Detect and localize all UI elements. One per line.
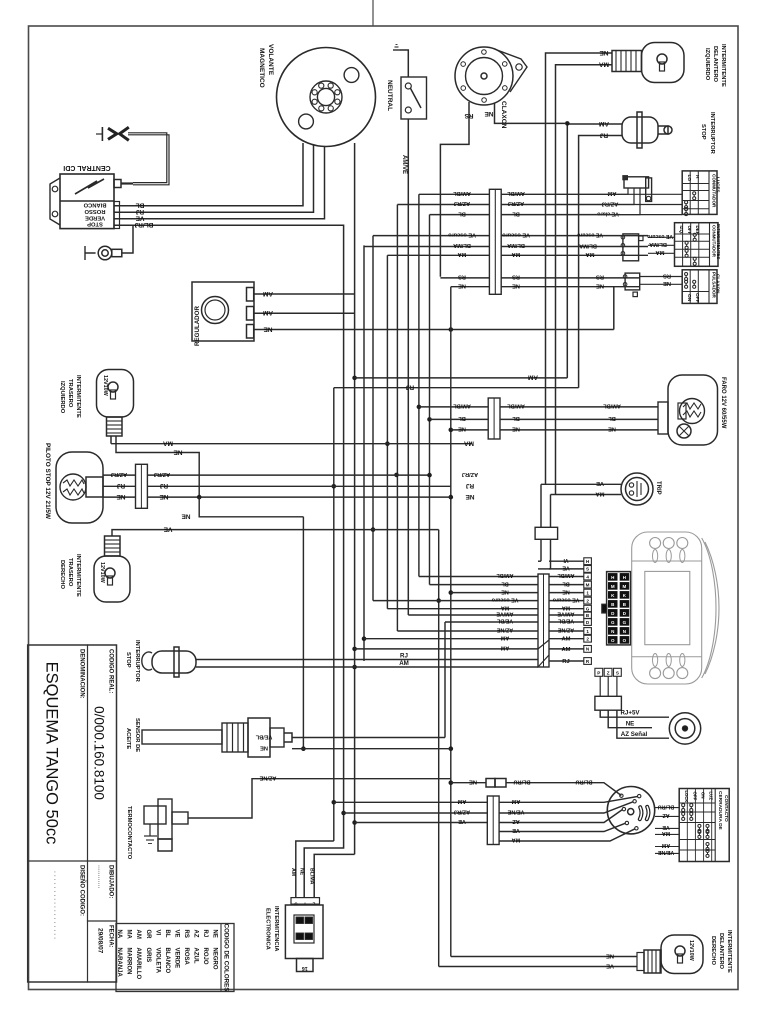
svg-text:AM/BL: AM/BL (507, 190, 525, 196)
speedo bottom connector (595, 668, 621, 676)
harness verticals (302, 517, 304, 749)
wire BL/RJ kill from CDI down to ignition (114, 225, 344, 897)
svg-text:BL/MA: BL/MA (507, 242, 525, 248)
wire AM/BL band A (419, 193, 490, 195)
svg-text:MA: MA (655, 249, 665, 255)
svg-text:1: 1 (586, 629, 589, 634)
neutral switch (401, 77, 427, 119)
svg-text:VIOLETA: VIOLETA (154, 948, 160, 974)
wire AM/VE speedo row (408, 614, 538, 616)
wire BL speedo row (430, 584, 539, 586)
svg-text:NE: NE (458, 426, 466, 432)
svg-text:CONTACTO: CONTACTO (723, 795, 729, 822)
svg-text:AM: AM (135, 930, 141, 939)
wire MA trip row (551, 494, 622, 496)
svg-text:AM: AM (561, 647, 570, 653)
wire RJ piloto (103, 485, 136, 487)
svg-text:NE: NE (512, 282, 520, 288)
svg-text:MA: MA (512, 837, 521, 843)
wire AZ/NE speedo row (397, 630, 538, 632)
wire VI speedo row (538, 560, 541, 562)
wire NE piloto (103, 496, 136, 498)
intermitencia connector top (291, 898, 320, 905)
color code table (116, 924, 234, 992)
label INTERMITENCIA ELECTRONICA (265, 906, 280, 952)
wire CDI HT to spark plug (121, 182, 133, 184)
svg-text:LUZ: LUZ (709, 792, 714, 801)
svg-text:LOCK: LOCK (684, 791, 689, 803)
front right lamp socket (637, 950, 661, 973)
svg-text:4: 4 (586, 574, 589, 579)
svg-text:AM: AM (500, 634, 509, 640)
svg-text:MARRON: MARRON (126, 948, 132, 975)
wire AZ senal (617, 710, 669, 738)
wire RJ stop switch down (579, 136, 622, 388)
svg-text:AM/BL: AM/BL (507, 403, 525, 409)
svg-text:RJ: RJ (599, 131, 608, 138)
faro lamp (668, 375, 718, 445)
svg-text:AZ/RJ: AZ/RJ (508, 200, 524, 206)
svg-text:AM: AM (661, 842, 670, 848)
claxon horn (455, 47, 527, 105)
svg-text:NE: NE (458, 282, 466, 288)
wire NE from claxon to stop row (495, 103, 566, 123)
label INTERRUPTOR STOP mid (125, 640, 140, 683)
ignition junction bar (487, 796, 499, 845)
junction dots harness (332, 484, 337, 489)
label VOLANTE MAGNETICO (258, 44, 274, 88)
svg-text:BL: BL (458, 210, 466, 216)
svg-text:S: S (586, 567, 589, 572)
wire BL/MA band A (364, 246, 489, 248)
svg-text:MA: MA (512, 251, 521, 257)
svg-text:AM/VE: AM/VE (557, 611, 574, 617)
wire AZ/RJ piloto (103, 474, 136, 476)
svg-text:TRASERO: TRASERO (67, 379, 73, 408)
svg-text:AZ: AZ (512, 818, 520, 824)
svg-text:FECHA:: FECHA: (108, 925, 114, 948)
svg-text:NE: NE (512, 426, 520, 432)
svg-text:VE: VE (596, 480, 604, 486)
wire RS band A (440, 277, 489, 279)
svg-text:BL: BL (458, 415, 466, 421)
trip fuse verticals (540, 484, 542, 527)
svg-text:NEGRO: NEGRO (212, 948, 218, 970)
piloto junction bar (136, 464, 148, 508)
regulador (192, 282, 254, 341)
svg-text:12V10W: 12V10W (99, 562, 105, 584)
svg-text:CERRADURA DE: CERRADURA DE (717, 791, 723, 831)
svg-text:RJ+5V: RJ+5V (620, 710, 640, 717)
svg-text:VE/NE: VE/NE (658, 849, 675, 855)
svg-text:PULSADOR: PULSADOR (711, 272, 716, 298)
svg-text:VE/BL: VE/BL (557, 618, 574, 624)
wire AZ/NE termocontacto (188, 779, 451, 818)
label INTERMITENTE TRASERO IZQUIERDO (59, 375, 81, 418)
svg-text:ROJO: ROJO (202, 948, 208, 965)
svg-text:AM/VE: AM/VE (401, 155, 407, 174)
svg-text:NE: NE (212, 930, 218, 938)
svg-text:2: 2 (586, 598, 589, 603)
intermitente delantero izquierdo lamp 12V10W (642, 43, 685, 83)
horn button unit (623, 273, 639, 297)
svg-text:IZQUIERDO: IZQUIERDO (704, 48, 710, 81)
wire MA trasero izq (111, 443, 472, 445)
svg-text:2: 2 (586, 637, 589, 642)
svg-text:VE oscuro: VE oscuro (448, 231, 476, 237)
wire RJ rear stop (196, 659, 538, 661)
svg-text:VE: VE (662, 824, 670, 830)
svg-text:VE claro: VE claro (597, 210, 619, 216)
svg-text:AM: AM (263, 309, 273, 316)
wire AM/BL speedo row (419, 576, 538, 578)
ground above neutral (393, 45, 408, 78)
svg-text:INTERRUPTOR: INTERRUPTOR (709, 112, 715, 155)
wire RJ row 387.7 (334, 387, 579, 389)
svg-text:CLAXON: CLAXON (500, 101, 507, 129)
svg-text:INTERMITENTE: INTERMITENTE (720, 44, 726, 87)
svg-text:DERECHO: DERECHO (59, 560, 65, 589)
svg-text:BL/MA: BL/MA (309, 868, 315, 885)
svg-text:S: S (616, 671, 619, 676)
wire ring terminal to CDI stop row (122, 225, 133, 253)
svg-text:M: M (611, 584, 615, 589)
speedo housing (632, 532, 719, 684)
volante magnetico flywheel (277, 48, 376, 147)
intermitente trasero derecho lamp (94, 536, 130, 602)
svg-text:O: O (623, 638, 627, 643)
wire volante AM main harness column (354, 143, 356, 854)
svg-text:IZQUIERDO: IZQUIERDO (59, 381, 65, 414)
svg-text:AM: AM (457, 798, 466, 804)
svg-text:NE: NE (260, 745, 268, 751)
svg-text:BL/RJ: BL/RJ (134, 221, 153, 228)
svg-text:OFF: OFF (694, 293, 700, 303)
svg-text:VE/BL: VE/BL (496, 618, 513, 624)
svg-text:ROSSO: ROSSO (84, 208, 105, 214)
cerradura de contacto table (679, 789, 729, 862)
junction bar A (489, 189, 501, 294)
wire AM stop switch to dot then down (567, 123, 622, 125)
svg-text:. . . . . . . . . . . . . . .: . . . . . . . . . . . . . . . . . . (53, 871, 60, 939)
svg-text:INTERMITENTE: INTERMITENTE (726, 930, 732, 973)
wire AM speedo row (364, 638, 538, 640)
svg-text:NE: NE (181, 513, 191, 520)
svg-text:ROSA: ROSA (183, 948, 189, 966)
svg-text:NE: NE (159, 493, 169, 500)
termocontacto (144, 799, 188, 851)
bend col 333.8 to intermitencia AM (296, 841, 334, 898)
svg-text:ESQUEMA TANGO 50cc: ESQUEMA TANGO 50cc (43, 662, 61, 845)
svg-text:CODIGO DE COLORES: CODIGO DE COLORES (223, 924, 230, 992)
wire VE front right indicator (439, 966, 637, 968)
svg-text:BL: BL (136, 202, 145, 209)
wire NE to fuse (451, 782, 486, 784)
svg-text:Z: Z (607, 671, 610, 676)
harness col 354 bend to intermitencia BL/MA (314, 854, 354, 897)
svg-text:VE oscuro: VE oscuro (577, 231, 603, 237)
svg-text:CODIGO REAL:: CODIGO REAL: (108, 649, 114, 693)
svg-text:MA: MA (163, 440, 173, 447)
svg-text:M: M (623, 584, 627, 589)
svg-text:CENTRAL CDI: CENTRAL CDI (63, 164, 110, 171)
svg-text:NARANJA: NARANJA (116, 948, 122, 978)
svg-text:VOLANTE: VOLANTE (267, 44, 274, 76)
svg-text:STOP: STOP (700, 124, 706, 140)
wire AM row 377.9 (355, 377, 568, 379)
wire AM rear stop (196, 666, 538, 668)
wire VE from CDI to volante (114, 147, 325, 219)
wire regulador AM2 (254, 312, 355, 314)
NE riser to pulsador claxon (613, 287, 615, 330)
svg-text:NE: NE (562, 588, 570, 594)
sensor de aceite (142, 718, 292, 757)
svg-text:CONMUTADOR: CONMUTADOR (712, 225, 717, 258)
svg-text:AMARILLO: AMARILLO (135, 948, 141, 980)
wire RJ from CDI to volante (114, 145, 314, 213)
svg-text:MA: MA (562, 604, 570, 610)
svg-text:M: M (586, 582, 590, 587)
svg-text:LO: LO (686, 175, 692, 182)
svg-text:CONMUTADOR: CONMUTADOR (711, 174, 716, 208)
svg-text:AM: AM (599, 120, 609, 127)
svg-text:NE: NE (465, 493, 475, 500)
svg-text:VE: VE (512, 827, 520, 833)
svg-text:G: G (586, 607, 590, 612)
wires to conmutador intermitentes (648, 236, 674, 238)
wire MA front-left indicator down to trip MA row (556, 65, 613, 495)
svg-text:H: H (694, 175, 700, 179)
svg-text:16: 16 (302, 965, 308, 971)
wheel sensor (669, 713, 700, 744)
wire regulador AM1 (254, 293, 355, 295)
svg-text:AM/BL: AM/BL (603, 403, 621, 409)
wire NE piloto down to sensor row (199, 497, 303, 517)
svg-text:NE: NE (626, 721, 635, 728)
svg-text:VI: VI (563, 557, 569, 563)
svg-text:INTERMITENTES: INTERMITENTES (716, 224, 721, 259)
svg-text:BL: BL (562, 580, 570, 586)
svg-text:NE: NE (484, 110, 494, 117)
wire NE front right indicator (451, 956, 637, 958)
svg-text:VE oscuro: VE oscuro (647, 233, 673, 239)
svg-text:MA: MA (464, 440, 474, 447)
interruptor stop front brake switch (622, 112, 672, 148)
svg-text:MA: MA (599, 61, 609, 68)
svg-text:G: G (611, 620, 615, 625)
wire AM speedo row (355, 648, 538, 650)
svg-text:BL: BL (512, 415, 520, 421)
svg-text:RS: RS (596, 274, 604, 280)
pulsador claxon table (682, 270, 720, 304)
wire NE front-left indicator down to trip VE row (546, 53, 613, 484)
wire BL band A (430, 214, 490, 216)
svg-text:RJ: RJ (116, 482, 125, 489)
svg-text:DELANTERO: DELANTERO (712, 46, 718, 83)
svg-text:RJ: RJ (562, 659, 569, 665)
wire VE speedo row (538, 568, 551, 570)
svg-text:RJ: RJ (159, 482, 168, 489)
svg-text:AZ/NE: AZ/NE (497, 627, 514, 633)
svg-text:VE oscuro: VE oscuro (552, 596, 579, 602)
svg-text:NE: NE (606, 952, 614, 958)
wire VE oscuro band A (373, 235, 489, 237)
svg-text:GRIS: GRIS (145, 948, 151, 963)
svg-text:DERECHO: DERECHO (710, 936, 716, 965)
svg-text:NA: NA (116, 930, 122, 939)
intermitente delantero derecho lamp (661, 935, 703, 974)
svg-text:1: 1 (586, 590, 589, 595)
faro connector (658, 402, 668, 434)
faro junction bar (488, 398, 500, 439)
svg-text:DENOMINACION:: DENOMINACION: (79, 649, 85, 699)
svg-text:NE: NE (596, 283, 604, 289)
svg-text:NE: NE (608, 426, 616, 432)
svg-text:VE: VE (458, 818, 466, 824)
svg-text:AZ/NE: AZ/NE (259, 775, 276, 781)
svg-text:AZ/RJ: AZ/RJ (602, 200, 619, 206)
svg-text:AZ/RJ: AZ/RJ (454, 809, 470, 815)
wire MA speedo row (387, 608, 538, 610)
svg-text:SENSOR DE: SENSOR DE (134, 718, 140, 752)
svg-text:AZ/NE: AZ/NE (558, 627, 575, 633)
wire VE/BL speedo row (445, 621, 538, 623)
svg-text:RJ: RJ (465, 482, 474, 489)
svg-text:AZ: AZ (192, 930, 198, 938)
label INTERMITENTE TRASERO DERECHO (59, 554, 81, 597)
svg-text:AM: AM (511, 798, 520, 804)
intermitencia electronica box (285, 905, 323, 959)
svg-text:AZ/RJ: AZ/RJ (154, 471, 170, 477)
svg-text:BL/MA: BL/MA (649, 241, 667, 247)
svg-text:G: G (623, 620, 627, 625)
svg-text:PILOTO STOP 12V 21/5W: PILOTO STOP 12V 21/5W (44, 443, 51, 520)
svg-text:RJ: RJ (202, 930, 208, 938)
svg-text:BLANCO: BLANCO (164, 948, 170, 974)
svg-text:BL/MA: BL/MA (579, 242, 597, 248)
wires to conmutador luces (620, 193, 682, 195)
svg-text:MA: MA (585, 251, 595, 257)
CDI internal labels (83, 201, 106, 226)
svg-text:BL/RU: BL/RU (575, 779, 592, 785)
wires speedo bottom connector to bar (599, 676, 601, 696)
svg-text:RJ: RJ (135, 208, 144, 215)
wire NE speedo sensor (608, 710, 652, 728)
turn signal switch unit (621, 234, 643, 261)
trip fuse block (535, 527, 558, 539)
svg-text:AM/BL: AM/BL (453, 403, 471, 409)
svg-text:INTERMITENTE: INTERMITENTE (75, 375, 81, 418)
svg-text:TRIP: TRIP (655, 481, 661, 495)
cerradura contact symbols (682, 804, 685, 807)
svg-text:GR: GR (145, 930, 151, 940)
wire NE sensor aceite (292, 748, 451, 750)
svg-text:RS: RS (663, 272, 671, 278)
wire NE trasero izq (116, 436, 199, 497)
svg-text:AM: AM (290, 868, 296, 876)
svg-text:TRASERO: TRASERO (67, 558, 73, 587)
wire NE faro (451, 429, 488, 431)
svg-text:ON: ON (686, 294, 692, 302)
wire NE speedo row (451, 592, 538, 594)
ignition diagonals to switch pins (560, 797, 638, 803)
light switch unit (620, 176, 652, 215)
svg-text:DISEÑO CODIGO:: DISEÑO CODIGO: (79, 865, 86, 916)
svg-text:ACEITE: ACEITE (125, 728, 131, 749)
svg-text:O: O (611, 638, 615, 643)
svg-text:AM/VE: AM/VE (496, 611, 513, 617)
wire VE/BL sensor aceite (292, 737, 445, 739)
svg-text:12V10W: 12V10W (102, 375, 108, 397)
svg-text:RS: RS (458, 274, 466, 280)
svg-text:MA: MA (501, 604, 509, 610)
svg-text:AZ/RJ: AZ/RJ (111, 471, 127, 477)
svg-text:DIBUJADO:: DIBUJADO: (108, 865, 114, 898)
svg-text:NE: NE (116, 493, 126, 500)
svg-text:AM: AM (263, 290, 273, 297)
svg-text:DELANTERO: DELANTERO (718, 933, 724, 970)
svg-text:INTERMITENCIA: INTERMITENCIA (273, 906, 279, 952)
ignition switch (607, 787, 654, 834)
svg-text:IZQ.: IZQ. (679, 226, 684, 235)
svg-text:CLAXON: CLAXON (716, 274, 721, 294)
svg-text:TERMOCONTACTO: TERMOCONTACTO (126, 806, 132, 860)
svg-text:AZ: AZ (662, 812, 670, 818)
svg-text:............: ............ (97, 865, 104, 888)
label INTERRUPTOR STOP (700, 112, 715, 155)
wire RJ speedo pin row (549, 660, 584, 662)
wire BL/RU fuse to ignition (506, 783, 621, 796)
svg-text:OFF: OFF (687, 226, 692, 235)
svg-text:BL: BL (512, 210, 520, 216)
ignition bar rows (334, 801, 488, 803)
svg-text:NE: NE (299, 868, 305, 876)
svg-text:MA: MA (126, 930, 132, 940)
interruptor stop rear brake (142, 647, 196, 677)
svg-text:AZ/RJ: AZ/RJ (454, 200, 470, 206)
svg-text:INTERRUPTOR: INTERRUPTOR (134, 640, 140, 683)
svg-text:AM/BL: AM/BL (496, 572, 514, 578)
svg-text:VE: VE (606, 962, 614, 968)
svg-text:AM: AM (500, 645, 509, 651)
svg-text:NE: NE (263, 325, 273, 332)
wire AZ/RJ band A (397, 204, 489, 206)
svg-text:N: N (623, 629, 626, 634)
svg-text:AM: AM (528, 374, 538, 381)
svg-text:MA: MA (595, 490, 605, 496)
wire RS from claxon (440, 102, 469, 277)
svg-text:BL: BL (608, 415, 616, 421)
label INTERMITENTE DELANTERO IZQUIERDO (704, 44, 726, 87)
wire MA band A (387, 254, 489, 256)
svg-text:OFF: OFF (692, 792, 697, 801)
svg-text:VE oscuro: VE oscuro (491, 596, 518, 602)
svg-text:AZUL: AZUL (192, 948, 198, 964)
svg-text:ELECTRONICA: ELECTRONICA (265, 908, 271, 951)
wire BL from CDI to volante (114, 143, 303, 206)
conmutador luces table (682, 171, 720, 216)
svg-text:H: H (623, 575, 626, 580)
svg-text:P: P (597, 671, 600, 676)
svg-text:RJ: RJ (400, 653, 408, 660)
svg-text:AM/BL: AM/BL (453, 190, 471, 196)
svg-text:MA: MA (662, 830, 670, 836)
svg-text:VE/NE: VE/NE (507, 809, 524, 815)
speedo pin strip (584, 558, 592, 565)
svg-text:0/000.160.8100: 0/000.160.8100 (92, 706, 107, 800)
svg-text:FARO 12V 60/55W: FARO 12V 60/55W (720, 377, 726, 429)
svg-text:29/08/07: 29/08/07 (97, 928, 104, 954)
